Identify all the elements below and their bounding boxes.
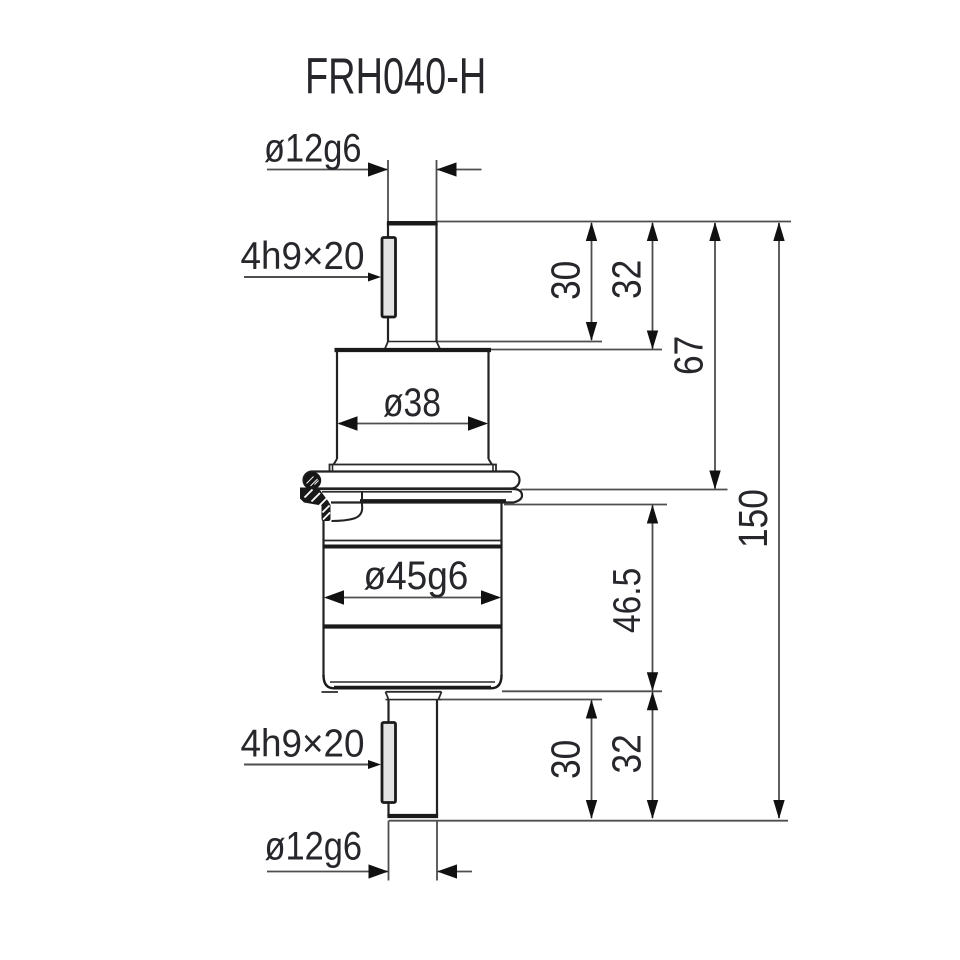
bottom shaft body xyxy=(387,700,438,816)
step ring xyxy=(330,465,497,472)
extension line neck-bottom right xyxy=(442,699,603,701)
extension line cylinder-top right xyxy=(489,349,662,351)
dimension 67 xyxy=(666,222,721,490)
title FRH040-H xyxy=(305,47,486,105)
dimension ø38 xyxy=(338,380,489,431)
svg-text:30: 30 xyxy=(543,261,589,300)
svg-text:150: 150 xyxy=(731,489,777,548)
extension lines ø12g6 top xyxy=(388,160,437,221)
dimension ø45g6 xyxy=(324,554,501,605)
leader 4h9×20 top xyxy=(241,235,382,281)
ø38 cylinder xyxy=(334,350,493,465)
svg-text:4h9×20: 4h9×20 xyxy=(241,235,365,278)
extension line shaft-end right xyxy=(389,820,788,822)
dimension 30 top xyxy=(543,222,597,341)
svg-text:4h9×20: 4h9×20 xyxy=(241,723,365,766)
dimension 46.5 xyxy=(605,505,659,692)
dimension ø12g6 bottom xyxy=(265,823,473,879)
svg-text:FRH040-H: FRH040-H xyxy=(305,47,486,105)
svg-text:32: 32 xyxy=(604,734,650,773)
svg-text:30: 30 xyxy=(543,740,589,779)
dimension ø12g6 top xyxy=(264,125,482,177)
dimension 32 bottom xyxy=(604,691,658,819)
svg-text:67: 67 xyxy=(666,336,712,375)
top shaft body xyxy=(387,222,438,342)
keyway bottom 4h9×20 xyxy=(382,723,396,803)
extension lines ø12g6 bottom xyxy=(389,821,438,881)
extension line body-bottom right xyxy=(502,690,662,692)
extension line clamp-bottom right xyxy=(504,504,667,506)
svg-text:ø45g6: ø45g6 xyxy=(364,554,469,599)
dimension 32 top xyxy=(604,222,658,350)
svg-text:32: 32 xyxy=(604,260,650,299)
svg-text:ø12g6: ø12g6 xyxy=(265,823,363,868)
extension line shaft-top right xyxy=(437,221,791,223)
dimension 150 xyxy=(731,222,785,819)
top shaft shoulder flare xyxy=(385,342,440,349)
clamp ring band2 xyxy=(305,489,522,503)
housing body ø45 xyxy=(322,503,503,692)
svg-text:46.5: 46.5 xyxy=(605,568,649,633)
clamp claw (hatched) xyxy=(300,488,331,522)
extension line flange-face right xyxy=(521,489,728,491)
bottom neck disc xyxy=(386,692,442,700)
o-ring cross-section xyxy=(304,472,321,489)
dimension 30 bottom xyxy=(543,700,597,820)
svg-text:ø12g6: ø12g6 xyxy=(264,125,362,170)
keyway top 4h9×20 xyxy=(382,238,396,318)
claw hook curve xyxy=(332,492,363,521)
svg-text:ø38: ø38 xyxy=(383,380,441,424)
leader 4h9×20 bottom xyxy=(241,723,382,769)
extension line shoulder-top right xyxy=(437,341,603,343)
flange disc band1 xyxy=(304,472,520,489)
